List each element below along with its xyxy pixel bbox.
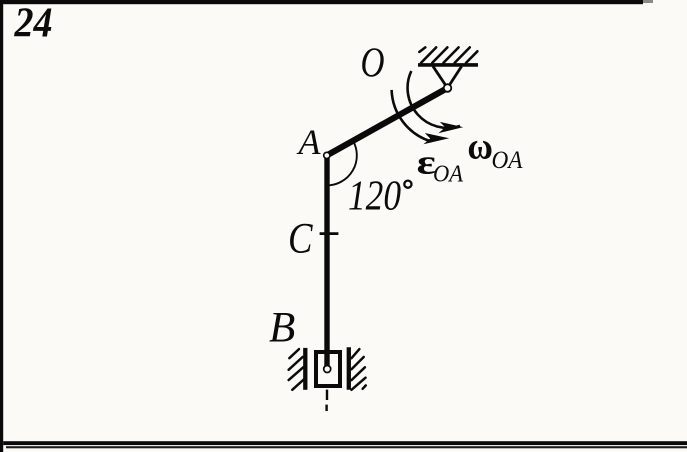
pin joint O [444, 84, 452, 92]
svg-text:OA: OA [492, 147, 524, 174]
svg-text:C: C [288, 216, 314, 263]
degree sign of 120 [404, 181, 411, 188]
pin joint A [324, 152, 330, 158]
svg-text:120: 120 [348, 174, 401, 220]
crank OA [327, 88, 448, 155]
cell top border [0, 0, 643, 4]
centerline dash 2 below slider [325, 405, 327, 411]
slider block at B [316, 352, 340, 386]
svg-text:B: B [269, 305, 295, 352]
slider left guide [303, 348, 307, 390]
midpoint tick C [320, 232, 339, 235]
omega_OA arc (inner rotation arrow) [408, 71, 460, 128]
fixed support hatching [419, 47, 477, 63]
svg-text:OA: OA [433, 161, 463, 187]
slider right guide hatching [352, 349, 366, 390]
centerline dash 1 below slider [326, 390, 328, 400]
slider left guide hatching [289, 349, 305, 390]
svg-text:ω: ω [467, 124, 493, 167]
fixed support triangle [433, 66, 462, 88]
cell bottom border line 2 (next row top) [6, 446, 687, 448]
cell bottom border line 1 [3, 441, 687, 445]
svg-text:A: A [296, 122, 320, 162]
epsilon_OA arc (outer rotation arrow) [392, 90, 432, 142]
omega_OA arrowhead [438, 122, 463, 133]
rod AB [324, 155, 329, 369]
slider right guide [347, 347, 351, 390]
svg-text:O: O [361, 41, 385, 87]
pin joint B [324, 366, 331, 373]
fixed support ground line [418, 63, 478, 67]
svg-text:24: 24 [14, 0, 53, 46]
epsilon_OA arrowhead [423, 133, 449, 144]
cell left border [0, 0, 3, 452]
angle arc at A (120 deg) [327, 141, 357, 186]
